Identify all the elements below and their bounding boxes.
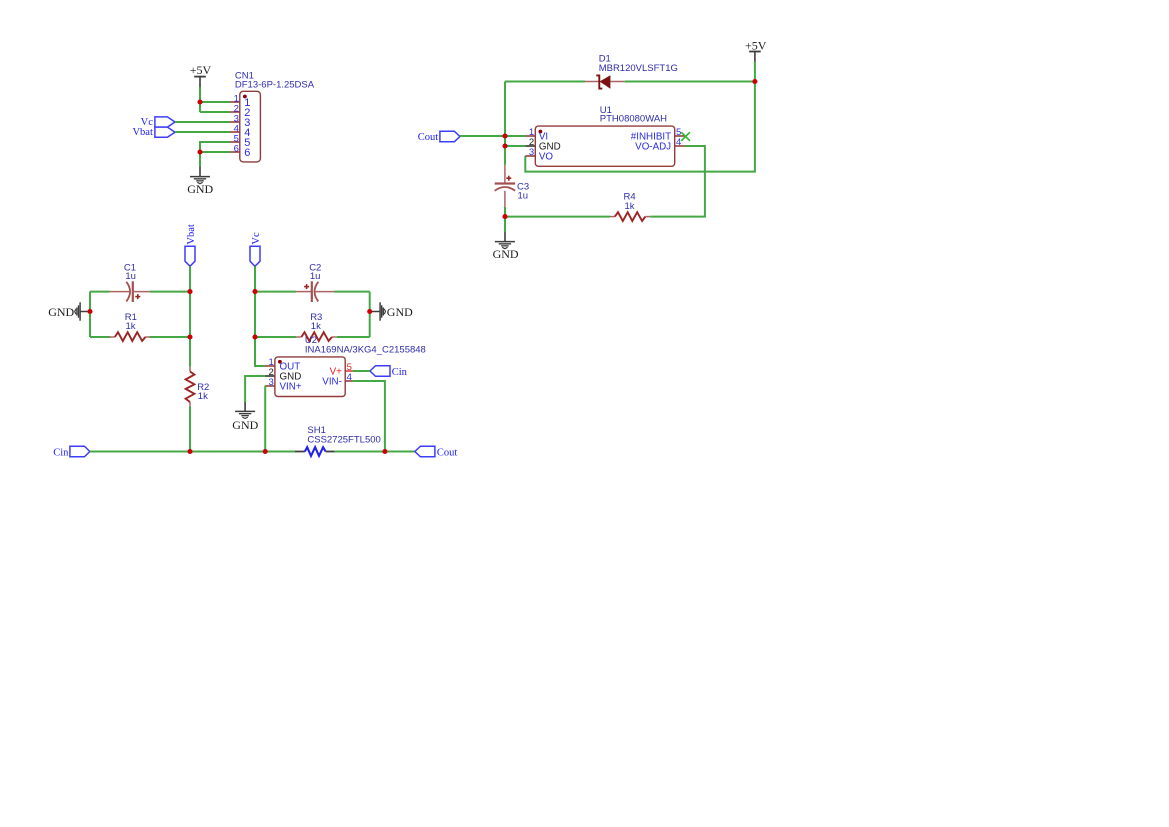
power +5V symbol (left) <box>190 63 212 87</box>
svg-text:Cout: Cout <box>418 132 439 143</box>
wire C1 rail left <box>90 291 110 293</box>
svg-text:1k: 1k <box>126 321 136 332</box>
junction VIN- rail <box>382 449 387 454</box>
svg-text:Vc: Vc <box>251 232 262 245</box>
shunt SH1 <box>295 425 381 456</box>
wire VI pin1 <box>505 135 525 137</box>
net flag Vbat <box>132 127 175 138</box>
wire right vertical <box>369 292 371 337</box>
wire C2 rail right <box>335 291 370 293</box>
wire vertical VI column <box>504 82 506 165</box>
wire D1 left <box>505 81 585 83</box>
resistor R4 <box>610 191 650 221</box>
junction CN1 pin6 <box>197 149 202 154</box>
wire Vbat vertical to R2 <box>189 292 191 367</box>
svg-text:1k: 1k <box>198 391 208 402</box>
wire R3 rail left <box>255 336 296 338</box>
wire rail left <box>90 451 295 453</box>
wire +5V to CN1 pin1 and pin2 <box>199 87 201 112</box>
junction C3 bottom <box>502 214 507 219</box>
junction R2 rail <box>187 449 192 454</box>
diode D1 <box>585 54 678 89</box>
svg-text:VO-ADJ: VO-ADJ <box>635 141 671 152</box>
net flag Cin (bottom left) <box>53 446 90 458</box>
wire C2 rail left <box>255 291 296 293</box>
IC U1 PTH08080WAH <box>525 105 690 167</box>
svg-text:1u: 1u <box>518 191 529 202</box>
svg-text:1u: 1u <box>310 271 321 282</box>
wire pin6 <box>200 151 230 153</box>
junction dots (drawn on top) <box>87 79 757 454</box>
svg-text:VIN+: VIN+ <box>280 381 302 392</box>
wire GND pin2 <box>505 145 525 147</box>
svg-text:4: 4 <box>347 372 352 383</box>
wire Vc down <box>254 266 256 291</box>
net flag Vbat (down) <box>185 224 197 266</box>
ground symbol below U2 <box>232 402 258 432</box>
wire VO-ADJ to R4 <box>650 146 705 217</box>
svg-text:PTH08080WAH: PTH08080WAH <box>600 113 667 124</box>
junction GND pin2 <box>502 143 507 148</box>
wire left vertical <box>89 292 91 337</box>
wire Vc to pin3 <box>175 121 230 123</box>
junction VIN+ rail <box>263 449 268 454</box>
wire U2 pin2 to ground <box>245 376 265 402</box>
junction CN1 pin1 <box>197 99 202 104</box>
wire C3 bottom <box>504 207 506 232</box>
net flag Vc (down) <box>250 232 262 266</box>
svg-text:MBR120VLSFT1G: MBR120VLSFT1G <box>599 63 678 74</box>
wire R2 bottom <box>189 406 191 451</box>
wire pin5 to GND column <box>200 142 230 167</box>
svg-text:GND: GND <box>232 418 258 432</box>
svg-text:1u: 1u <box>125 271 136 282</box>
junction C2 left <box>252 289 257 294</box>
svg-text:1k: 1k <box>625 201 635 212</box>
wire Vc vertical to U2 pin1 <box>255 292 265 366</box>
wire D1 right <box>625 81 755 83</box>
svg-text:GND: GND <box>48 305 74 319</box>
svg-text:+5V: +5V <box>745 38 767 52</box>
wire VO to +5V rail <box>525 62 755 172</box>
svg-text:DF13-6P-1.25DSA: DF13-6P-1.25DSA <box>235 80 315 91</box>
wire VIN- to rail <box>353 381 385 452</box>
svg-text:Cin: Cin <box>53 447 69 458</box>
junction +5V / D1 <box>752 79 757 84</box>
ground symbol below CN1 <box>187 167 213 196</box>
wire Vbat to pin4 <box>175 131 230 133</box>
junction VI/Cout <box>502 133 507 138</box>
net flag Cout (bottom right) <box>415 446 458 458</box>
svg-text:GND: GND <box>493 247 519 261</box>
svg-text:Cin: Cin <box>392 367 408 378</box>
svg-text:3: 3 <box>529 147 534 158</box>
wire R3 rail right <box>337 336 370 338</box>
ground symbol below C3 <box>493 232 519 261</box>
svg-text:Vbat: Vbat <box>132 127 152 138</box>
capacitor C1 <box>110 262 150 302</box>
wire R4 left to C3 column <box>505 216 610 218</box>
ground symbol right (pointing right) <box>370 302 413 320</box>
resistor R1 <box>110 312 150 341</box>
svg-text:VIN-: VIN- <box>322 376 342 387</box>
svg-text:6: 6 <box>234 143 239 154</box>
resistor R3 <box>296 312 337 341</box>
junction R3 left <box>252 334 257 339</box>
ground symbol left (pointing left) <box>48 302 90 320</box>
wire R1 rail left <box>90 336 110 338</box>
svg-text:CSS2725FTL500: CSS2725FTL500 <box>307 435 380 446</box>
junction GND right tap <box>367 309 372 314</box>
IC U2 INA169 <box>265 335 426 396</box>
svg-text:3: 3 <box>269 377 274 388</box>
net flag Vc <box>141 117 175 128</box>
svg-text:INA169NA/3KG4_C2155848: INA169NA/3KG4_C2155848 <box>305 345 426 356</box>
wire R1 rail right <box>150 336 190 338</box>
net flag Cout (top) <box>418 131 460 143</box>
wire V+ to Cin flag <box>353 370 370 372</box>
wire Vbat down <box>189 266 191 291</box>
svg-text:6: 6 <box>244 147 250 159</box>
wire U2 pin3 to rail <box>264 386 266 452</box>
junction GND left tap <box>87 309 92 314</box>
wire rail right <box>335 451 415 453</box>
power +5V symbol (right) <box>745 38 767 61</box>
svg-text:GND: GND <box>187 182 213 196</box>
net flag Cin (at U2 V+) <box>370 366 408 379</box>
resistor R2 (vertical) <box>186 367 210 407</box>
svg-text:VO: VO <box>539 151 554 162</box>
wire Cout to VI <box>460 135 505 137</box>
svg-text:4: 4 <box>676 137 681 148</box>
svg-text:+5V: +5V <box>190 63 212 77</box>
svg-text:Cout: Cout <box>437 447 458 458</box>
svg-text:1k: 1k <box>311 321 321 332</box>
junction C1 right <box>187 289 192 294</box>
connector CN1 <box>230 71 315 162</box>
junction R1 right <box>187 334 192 339</box>
svg-text:GND: GND <box>387 305 413 319</box>
capacitor C3 <box>495 165 529 207</box>
capacitor C2 <box>296 262 335 302</box>
svg-text:Vbat: Vbat <box>186 224 197 244</box>
wire C1 rail right <box>150 291 190 293</box>
